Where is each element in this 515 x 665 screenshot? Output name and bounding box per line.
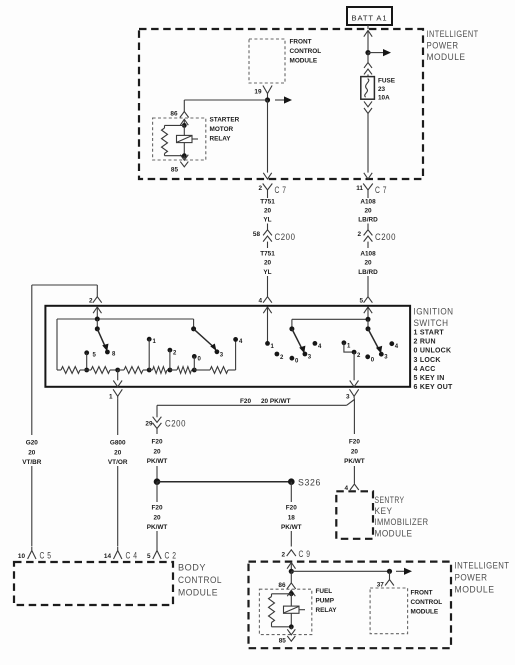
svg-text:85: 85	[171, 167, 179, 174]
svg-text:CONTROL: CONTROL	[178, 575, 222, 586]
junction pin2 on bus A	[95, 317, 100, 322]
chain node exit pin1	[115, 368, 120, 373]
switch internal bus A	[57, 318, 194, 320]
svg-text:PUMP: PUMP	[316, 598, 335, 605]
svg-text:T751: T751	[260, 250, 275, 257]
ignition switch pin 3 connector fork	[350, 389, 359, 396]
svg-text:14: 14	[104, 553, 112, 560]
svg-text:CONTROL: CONTROL	[290, 48, 322, 55]
wire C7-11 to C200-2	[367, 196, 369, 199]
switch internal bus B	[292, 318, 368, 320]
svg-text:4 ACC: 4 ACC	[414, 366, 436, 373]
fuel pump relay dashed box	[259, 589, 311, 634]
svg-text:PK/WT: PK/WT	[147, 458, 168, 465]
resistor chain segment R1	[61, 367, 80, 374]
starter relay coil	[183, 125, 185, 135]
splice S326	[288, 478, 295, 485]
chain node contact2	[168, 368, 173, 373]
svg-text:86: 86	[170, 111, 178, 118]
wire C200-29 to splice S326 left	[156, 429, 158, 435]
svg-text:20: 20	[264, 207, 272, 214]
ignition switch pin 2 connector chevron	[93, 297, 102, 303]
switch pole B wiper pivot	[193, 319, 195, 329]
svg-text:PK/WT: PK/WT	[281, 524, 302, 531]
svg-text:2: 2	[258, 185, 262, 192]
svg-text:10: 10	[18, 553, 26, 560]
svg-text:F20: F20	[151, 439, 162, 446]
front control module (top) dashed box	[249, 39, 285, 83]
svg-text:0 UNLOCK: 0 UNLOCK	[414, 348, 452, 355]
front control module (bottom) dashed box	[370, 588, 408, 634]
switch pole A wiper pivot	[95, 326, 100, 331]
svg-text:20: 20	[364, 260, 372, 267]
chain node contact1	[147, 368, 152, 373]
fuse 23 bottom terminal chevrons	[364, 101, 372, 106]
fuel pump relay parallel resistor	[272, 593, 292, 595]
wire C7-2 to C200-58	[267, 196, 269, 199]
starter relay parallel resistor	[165, 124, 185, 126]
resistor chain segment R6	[210, 367, 228, 374]
svg-text:C 4: C 4	[126, 551, 138, 562]
wire splice to C9 pin 2	[290, 482, 292, 502]
svg-text:F20: F20	[349, 439, 360, 446]
wire junction to fuse	[367, 53, 369, 63]
fuel pump relay pin 85 connector chevron	[287, 636, 295, 641]
svg-text:20: 20	[351, 449, 359, 456]
svg-text:20: 20	[28, 450, 36, 457]
svg-text:G20: G20	[26, 440, 39, 447]
F20 branch diagonal to horizontal run	[347, 400, 355, 406]
svg-text:MODULE: MODULE	[411, 609, 439, 616]
svg-text:YL: YL	[263, 216, 271, 223]
svg-text:FRONT: FRONT	[290, 39, 312, 46]
connector arrow out of IPM at C7 pin 11	[364, 173, 372, 179]
starter relay pin 86 connector chevron	[180, 112, 189, 118]
switch pole A wiper arm to contact 8	[97, 329, 105, 346]
junction at FCM 37 drop	[387, 569, 392, 574]
svg-text:FUEL: FUEL	[316, 588, 333, 595]
svg-text:MOTOR: MOTOR	[210, 126, 234, 133]
svg-text:A108: A108	[360, 250, 376, 257]
svg-text:5 KEY IN: 5 KEY IN	[414, 375, 445, 382]
wire C200-58 to ignition switch pin 4	[267, 242, 269, 248]
svg-text:20: 20	[153, 515, 161, 522]
svg-text:1 START: 1 START	[414, 330, 445, 337]
F20 branch drop to C200 pin 29	[156, 405, 158, 417]
flow arrow right from battery feed junction	[368, 52, 384, 54]
junction at FCM pin 19 feed	[265, 97, 270, 102]
switch pole B wiper arm to contact 3	[194, 329, 213, 346]
wire BATT A1 to fuse 23	[367, 25, 369, 29]
wire FCM pin 19 to junction	[267, 96, 269, 101]
C9 entry arrow into bottom IPM	[287, 563, 295, 569]
svg-text:IMMOBILIZER: IMMOBILIZER	[375, 517, 429, 528]
switch pole C contact 3	[303, 352, 308, 357]
switch pole B contact 3	[215, 349, 220, 354]
svg-text:IGNITION: IGNITION	[414, 307, 454, 318]
wire pole D contact 2 down to pin 3	[353, 352, 355, 380]
FCM pin 19 connector fork	[263, 86, 272, 94]
svg-text:A108: A108	[360, 198, 376, 205]
svg-text:C 9: C 9	[299, 549, 311, 560]
body control module dashed box	[14, 562, 173, 605]
svg-text:FUSE: FUSE	[378, 78, 396, 85]
switch pole C contact 4	[313, 341, 318, 346]
resistor chain segment R3	[124, 367, 143, 374]
fuel pump relay pin 86 connector chevron	[287, 583, 296, 589]
svg-text:FRONT: FRONT	[411, 590, 433, 597]
svg-text:INTELLIGENT: INTELLIGENT	[427, 29, 479, 40]
svg-text:KEY: KEY	[375, 506, 393, 517]
switch pole C contact 0	[290, 356, 295, 361]
fuel pump relay pin 85 exit arrow	[290, 627, 292, 630]
ignition switch pin 5 connector chevron	[364, 297, 373, 303]
svg-text:58: 58	[253, 231, 261, 238]
intelligent power module (top) dashed box	[139, 29, 423, 179]
switch pole C wiper pivot	[289, 326, 294, 331]
chain node contact0	[192, 368, 197, 373]
switch pole D feed junction	[366, 317, 371, 322]
svg-text:3: 3	[346, 394, 350, 401]
svg-text:20: 20	[153, 449, 161, 456]
svg-text:PK/WT: PK/WT	[147, 524, 168, 531]
wire G800 ignition pin1 to C4	[117, 398, 119, 435]
svg-text:MODULE: MODULE	[427, 52, 466, 63]
wire G20 from C5 up to ignition pin 2	[31, 285, 33, 435]
switch pole D wiper pivot	[366, 326, 371, 331]
svg-text:23: 23	[378, 86, 386, 93]
svg-text:29: 29	[145, 421, 153, 428]
chain riser to contact 4	[235, 341, 237, 370]
svg-text:F20: F20	[286, 505, 297, 512]
svg-text:POWER: POWER	[427, 41, 459, 52]
starter motor relay dashed box	[153, 118, 206, 160]
svg-text:C 2: C 2	[165, 551, 177, 562]
svg-text:VT/OR: VT/OR	[108, 459, 128, 466]
switch pole D contact 1	[342, 340, 347, 345]
svg-text:4: 4	[258, 297, 262, 304]
svg-text:STARTER: STARTER	[210, 117, 240, 124]
svg-text:18: 18	[288, 515, 296, 522]
svg-text:LB/RD: LB/RD	[358, 269, 378, 276]
svg-text:C200: C200	[275, 232, 296, 243]
switch pole C contact 1	[265, 341, 270, 346]
svg-text:MODULE: MODULE	[455, 585, 495, 596]
svg-text:CONTROL: CONTROL	[411, 599, 443, 606]
svg-text:C 7: C 7	[275, 185, 287, 196]
svg-text:RELAY: RELAY	[316, 607, 338, 614]
switch pole B contact 2	[168, 348, 173, 353]
switch pole C wiper arm to contact 3	[292, 329, 302, 348]
svg-text:YL: YL	[263, 269, 271, 276]
svg-text:3 LOCK: 3 LOCK	[414, 357, 441, 364]
fuse 23 top terminal chevrons	[364, 63, 372, 68]
FCM (bottom) pin 37 connector chevron	[385, 580, 394, 586]
junction on battery feed	[365, 50, 370, 55]
svg-text:RELAY: RELAY	[210, 136, 232, 143]
svg-text:SENTRY: SENTRY	[375, 495, 405, 506]
switch pole A contact 5	[84, 350, 89, 355]
svg-text:BODY: BODY	[178, 563, 206, 574]
svg-text:20 PK/WT: 20 PK/WT	[261, 398, 291, 405]
splice junction left	[154, 478, 161, 485]
svg-text:F20: F20	[151, 505, 162, 512]
battery feed box BATT A1	[347, 7, 392, 25]
svg-text:C 7: C 7	[375, 185, 387, 196]
sentry key immobilizer module dashed box	[336, 491, 373, 539]
svg-text:POWER: POWER	[455, 573, 488, 584]
switch pole D contact 1 to 2 link	[344, 343, 354, 352]
svg-text:5: 5	[359, 297, 363, 304]
connector arrow into IPM at BATT feed	[364, 31, 372, 37]
svg-text:INTELLIGENT: INTELLIGENT	[455, 561, 510, 572]
svg-text:MODULE: MODULE	[290, 58, 318, 65]
svg-text:6 KEY OUT: 6 KEY OUT	[414, 384, 454, 391]
svg-text:C200: C200	[375, 232, 396, 243]
svg-text:G800: G800	[110, 440, 126, 447]
starter relay pin 85 connector chevron	[180, 162, 188, 167]
ignition switch pin 3 exit arrow	[350, 381, 359, 387]
wire splice to C2 pin 5	[156, 482, 158, 502]
svg-text:C 5: C 5	[40, 551, 52, 562]
switch pole D contact 4	[389, 341, 394, 346]
svg-text:SWITCH: SWITCH	[414, 318, 449, 329]
svg-text:LB/RD: LB/RD	[358, 216, 378, 223]
wire C9 junction down to fuel pump relay 86	[290, 571, 292, 583]
ignition switch box	[45, 306, 410, 387]
svg-text:2: 2	[357, 231, 361, 238]
svg-text:2 RUN: 2 RUN	[414, 339, 436, 346]
starter relay coil bottom junction	[182, 153, 187, 158]
switch pole D contact 2	[352, 350, 357, 355]
switch pole D contact 0	[365, 354, 370, 359]
switch pole B contact 1	[147, 337, 152, 342]
svg-text:20: 20	[264, 260, 272, 267]
ignition switch pin 1 exit arrow	[113, 381, 122, 387]
intelligent power module (bottom) dashed box	[249, 562, 452, 649]
ignition switch pin 2 entry arrow	[93, 307, 101, 313]
svg-text:11: 11	[356, 185, 363, 192]
svg-text:BATT A1: BATT A1	[352, 14, 388, 23]
svg-text:19: 19	[254, 89, 262, 96]
svg-text:2: 2	[281, 552, 285, 559]
chain bottom exit wire to pin 1	[117, 370, 119, 380]
svg-text:C200: C200	[165, 418, 186, 429]
wire junction down to C7 pin 2	[267, 100, 269, 173]
svg-text:5: 5	[147, 553, 151, 560]
ignition switch pin 5 entry arrow	[364, 307, 372, 313]
connector arrow out of IPM at C7 pin 2	[263, 173, 271, 179]
resistor chain segment R2	[91, 367, 110, 374]
svg-text:MODULE: MODULE	[375, 529, 413, 540]
svg-text:20: 20	[114, 450, 122, 457]
fuel pump relay coil top junction	[289, 591, 294, 596]
starter relay pin 86 entry arrow	[180, 119, 188, 125]
fuel pump relay coil bottom junction	[289, 624, 294, 629]
wire bus down to FCM pin 37	[389, 571, 391, 579]
ignition switch pin 4 connector chevron	[263, 297, 272, 303]
starter relay pin 85 exit arrow	[183, 156, 185, 160]
svg-text:1: 1	[109, 394, 113, 401]
resistor chain segment R5	[177, 367, 192, 374]
bottom IPM bus wire	[291, 570, 389, 572]
F20 branch horizontal wire	[157, 404, 347, 406]
svg-text:T751: T751	[260, 198, 275, 205]
svg-text:85: 85	[279, 638, 287, 645]
junction at C9 feed	[289, 569, 294, 574]
chain node contact5	[84, 368, 89, 373]
fuel pump relay coil	[290, 594, 292, 606]
resistor chain segment R4	[153, 367, 168, 374]
wire F20 from pin 3 down to SKIM	[353, 398, 355, 434]
svg-text:86: 86	[278, 582, 286, 589]
svg-text:S326: S326	[298, 478, 321, 489]
svg-text:PK/WT: PK/WT	[344, 458, 365, 465]
ignition switch pin 1 connector fork	[113, 389, 122, 396]
fuse 23 10A body	[361, 77, 375, 100]
svg-text:20: 20	[364, 207, 372, 214]
splice bus wire	[157, 481, 291, 483]
fuel pump relay pin 86 entry arrow	[287, 590, 295, 596]
svg-text:F20: F20	[240, 398, 251, 405]
svg-text:MODULE: MODULE	[178, 588, 218, 599]
svg-text:VT/BR: VT/BR	[22, 459, 42, 466]
switch pole D contact 3	[379, 352, 384, 357]
flow arrow right on bottom bus	[396, 570, 405, 572]
svg-text:10A: 10A	[378, 95, 390, 102]
switch pole B contact 4	[233, 337, 238, 342]
starter relay coil top junction	[182, 123, 187, 128]
svg-text:2: 2	[89, 297, 93, 304]
switch pole A contact 8	[105, 350, 110, 355]
wire starter relay 86 riser	[184, 99, 267, 101]
wire fuse to C7 pin 11	[367, 113, 369, 172]
SKIM pin 4 connector chevron	[350, 484, 359, 490]
svg-text:4: 4	[344, 485, 348, 492]
flow arrow right from pin 19 junction	[275, 99, 285, 101]
ignition switch pin 4 entry arrow	[263, 307, 271, 313]
switch pole C contact 2	[275, 352, 280, 357]
switch pole B contact 0	[192, 354, 197, 359]
switch pole D wiper arm to contact 3	[368, 329, 378, 348]
wire C200-2 to ignition switch pin 5	[367, 242, 369, 248]
